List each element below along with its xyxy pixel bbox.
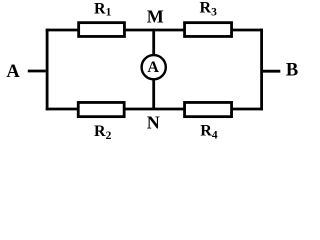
resistor R3	[185, 23, 232, 37]
wire: terminal B lead	[263, 70, 280, 73]
svg-text:N: N	[147, 113, 160, 133]
wire: top rail A-M-B	[46, 29, 263, 32]
wire: left vertical at terminal A	[46, 29, 49, 111]
resistor R4	[185, 102, 232, 116]
ammeter A (circle)	[142, 55, 166, 79]
resistor R2	[78, 102, 124, 116]
svg-text:B: B	[286, 61, 298, 81]
svg-text:A: A	[147, 59, 159, 76]
svg-text:R4: R4	[200, 123, 218, 142]
resistor R1	[79, 23, 125, 37]
wire: middle branch M-N	[152, 30, 155, 109]
svg-text:A: A	[6, 62, 20, 82]
svg-text:R1: R1	[94, 0, 112, 18]
svg-text:M: M	[147, 7, 164, 27]
wire: right vertical at terminal B	[260, 29, 263, 111]
svg-text:R3: R3	[200, 0, 218, 19]
wire: terminal A lead	[28, 70, 46, 73]
wire: bottom rail	[46, 108, 263, 111]
svg-text:R2: R2	[94, 123, 112, 142]
